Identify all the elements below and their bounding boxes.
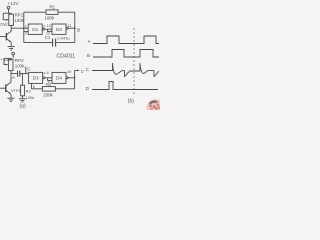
waveform C	[92, 63, 159, 76]
potentiometer RP1	[6, 13, 13, 25]
gate D1	[28, 24, 42, 34]
transistor VT (top)	[0, 28, 11, 46]
svg-text:R1: R1	[50, 5, 56, 10]
svg-text:10: 10	[67, 70, 71, 74]
wire pin2 branch	[24, 31, 28, 33]
ground (top transistor)	[8, 47, 15, 51]
gate D3	[29, 72, 43, 83]
svg-text:D: D	[81, 69, 84, 74]
wire pot2 bottom node A	[11, 71, 17, 74]
wire wiper loop	[3, 13, 7, 20]
resistor R2	[31, 87, 74, 92]
svg-text:100k: 100k	[45, 16, 55, 21]
svg-text:11: 11	[67, 24, 71, 28]
timing diagram	[92, 28, 159, 96]
svg-text:D3: D3	[33, 76, 39, 81]
wire pin6 bottom entry	[30, 83, 32, 88]
node A to transistor collector	[10, 74, 12, 83]
svg-text:CD4011: CD4011	[57, 54, 76, 60]
resistor R3	[21, 74, 25, 99]
svg-text:D4: D4	[56, 76, 62, 81]
wire node B to C1	[74, 28, 76, 42]
svg-text:+12V: +12V	[8, 1, 20, 6]
red stamp fragment	[147, 99, 165, 115]
svg-text:B: B	[87, 53, 90, 58]
waveform D	[92, 82, 158, 90]
transistor VTP1	[0, 82, 11, 98]
+12V terminal (bottom)	[12, 52, 15, 58]
node junction dot	[23, 27, 25, 29]
svg-text:4: 4	[43, 71, 45, 75]
wire pot bottom	[10, 25, 12, 28]
svg-text:100k: 100k	[15, 64, 25, 69]
svg-text:2: 2	[25, 31, 27, 35]
svg-text:(a): (a)	[20, 103, 26, 109]
svg-text:8: 8	[47, 71, 49, 75]
schematic text labels	[0, 1, 134, 109]
svg-text:6: 6	[33, 85, 35, 89]
wire D2 in branch	[48, 29, 52, 31]
R3 branch dot	[22, 73, 23, 74]
svg-text:13: 13	[47, 24, 51, 28]
capacitor C1	[24, 39, 75, 47]
waveform labels	[86, 39, 92, 91]
wire wiper loop 2	[4, 58, 7, 64]
wire feedback vertical	[23, 12, 25, 42]
+12V terminal (top)	[7, 6, 10, 13]
wire pot2 top	[4, 57, 11, 59]
dashed timeline	[133, 28, 135, 96]
potentiometer RP2	[6, 58, 13, 70]
node C stub	[25, 67, 27, 74]
svg-text:RP2: RP2	[15, 58, 24, 63]
capacitor C2	[18, 71, 29, 77]
ground (VTP1)	[7, 98, 14, 101]
svg-text:RP1: RP1	[15, 13, 24, 18]
gate D4	[52, 72, 66, 83]
svg-text:C1: C1	[45, 35, 51, 40]
node dot D4 out	[74, 77, 76, 79]
svg-text:1: 1	[25, 24, 27, 28]
output arrow D	[75, 70, 80, 72]
wire output vertical	[74, 70, 76, 88]
svg-text:VTP1: VTP1	[11, 88, 21, 93]
svg-text:100k: 100k	[15, 18, 25, 23]
svg-text:3: 3	[43, 25, 45, 29]
wire D2 out	[66, 27, 68, 29]
wire D4 out	[66, 77, 68, 79]
wire R1 to node B	[74, 12, 76, 28]
wire node input D1	[11, 27, 28, 29]
svg-text:R3: R3	[26, 88, 32, 93]
svg-text:B: B	[77, 28, 80, 33]
wire D1 out	[42, 28, 44, 30]
gate D2	[52, 24, 66, 34]
svg-text:R2: R2	[46, 82, 52, 87]
wire pot top	[3, 12, 11, 14]
svg-text:DW1: DW1	[0, 22, 10, 27]
svg-text:200k: 200k	[43, 93, 53, 98]
ground (R3)	[19, 99, 26, 102]
svg-text:(b): (b)	[128, 99, 134, 105]
wire D3 out	[43, 77, 45, 79]
waveform A	[93, 36, 159, 44]
svg-text:100k: 100k	[26, 95, 35, 100]
svg-text:+12V: +12V	[0, 57, 12, 63]
svg-text:D1: D1	[32, 27, 38, 32]
node B dot	[74, 27, 76, 29]
waveform B	[93, 50, 159, 58]
svg-text:D2: D2	[56, 27, 62, 32]
wire D4 in branch	[48, 78, 52, 81]
resistor R1	[24, 10, 75, 15]
svg-text:0.047μ: 0.047μ	[57, 36, 70, 41]
